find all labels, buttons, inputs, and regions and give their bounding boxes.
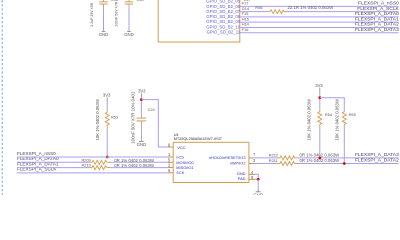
svg-text:MT25QL256ABA1EW7-0SIT: MT25QL256ABA1EW7-0SIT [174,137,223,141]
svg-text:F16: F16 [242,27,249,32]
svg-text:100nF 50V X7R 10% 0402: 100nF 50V X7R 10% 0402 [130,91,135,144]
svg-text:C64: C64 [137,0,144,2]
svg-text:nCS: nCS [176,155,184,160]
svg-text:G14: G14 [242,6,250,11]
svg-text:3V3: 3V3 [315,83,323,88]
svg-text:F17: F17 [242,1,249,6]
svg-text:GND: GND [99,32,109,37]
svg-text:2.2uF 25V X5R: 2.2uF 25V X5R [90,2,94,26]
svg-text:FLEXSPI_A_nSS0: FLEXSPI_A_nSS0 [358,1,399,7]
svg-text:10K 1% 0402 0.063W: 10K 1% 0402 0.063W [335,99,340,140]
svg-text:VCC: VCC [177,145,185,150]
svg-text:FLEXSPI_A_DATA0: FLEXSPI_A_DATA0 [355,11,399,17]
svg-text:H15: H15 [242,16,249,21]
svg-text:R211: R211 [269,158,278,163]
svg-text:R55: R55 [349,112,356,117]
svg-text:FLEXSPI_A_nSS0: FLEXSPI_A_nSS0 [17,151,56,156]
svg-text:R56: R56 [255,5,262,10]
svg-text:FLEXSPI_A_SCLK: FLEXSPI_A_SCLK [357,6,399,12]
svg-text:GND: GND [137,142,147,147]
svg-text:FLEXSPI_A_DATA3: FLEXSPI_A_DATA3 [355,27,399,33]
svg-text:C20: C20 [148,107,156,112]
svg-text:nHOLD/nRESET/IO3: nHOLD/nRESET/IO3 [209,155,246,160]
svg-text:FLEXSPI_A_DATA2: FLEXSPI_A_DATA2 [355,158,399,164]
svg-text:GND: GND [253,192,263,195]
svg-text:22.1R 1% 0402 0.063W: 22.1R 1% 0402 0.063W [288,5,335,10]
svg-text:FLEXSPI_A_DATA2: FLEXSPI_A_DATA2 [355,22,399,28]
svg-text:10K 1% 0402 0.063W: 10K 1% 0402 0.063W [95,99,100,140]
svg-text:nWP/IO2: nWP/IO2 [230,161,246,166]
svg-text:0R 1% 0402 0.063W: 0R 1% 0402 0.063W [114,158,155,163]
svg-text:3V3: 3V3 [103,92,111,97]
svg-text:0R 1% 0402 0.063W: 0R 1% 0402 0.063W [114,163,155,168]
svg-text:FLEXSPI_A_DATA1: FLEXSPI_A_DATA1 [355,16,399,22]
svg-text:R54: R54 [325,112,333,117]
svg-text:R53: R53 [111,114,118,119]
svg-text:GND: GND [124,32,134,37]
svg-text:R212: R212 [269,152,278,157]
svg-text:R209: R209 [82,157,91,162]
svg-text:C46: C46 [111,0,118,2]
svg-text:FLEXSPI_A_DATA3: FLEXSPI_A_DATA3 [355,152,399,158]
svg-text:100nF 50V X7R: 100nF 50V X7R [114,1,118,26]
svg-text:PAD: PAD [238,176,246,181]
svg-text:SCK: SCK [176,170,184,175]
svg-text:R210: R210 [82,163,92,168]
svg-text:10K 1% 0402 0.063W: 10K 1% 0402 0.063W [306,99,311,140]
svg-text:3V3: 3V3 [138,89,146,94]
svg-text:GPIO_SD_B2_11: GPIO_SD_B2_11 [207,30,241,35]
svg-text:U4: U4 [174,133,179,137]
